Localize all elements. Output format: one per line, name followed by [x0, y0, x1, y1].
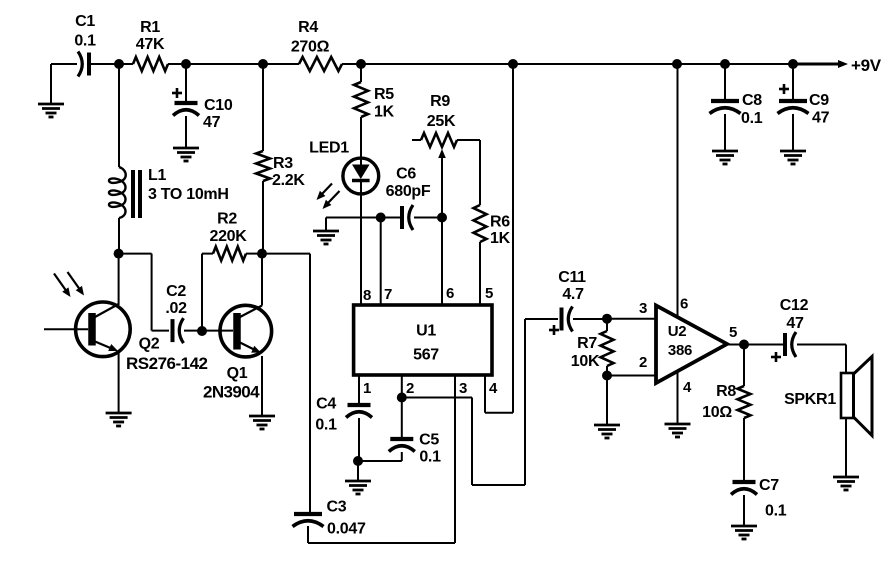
wire	[724, 114, 726, 151]
ground	[594, 425, 620, 438]
resistor R1	[133, 57, 168, 71]
capacitor C4	[346, 405, 372, 418]
wire	[50, 64, 52, 103]
wire	[677, 64, 679, 317]
wire	[326, 218, 401, 232]
wire	[743, 418, 745, 481]
svg-text:C12: C12	[780, 297, 809, 314]
ground	[173, 148, 199, 161]
capacitor C5	[389, 439, 415, 452]
svg-text:8: 8	[363, 287, 371, 304]
svg-text:R9: R9	[430, 93, 450, 110]
LED LED1	[343, 158, 379, 194]
capacitor C11	[549, 307, 573, 336]
wire	[743, 495, 745, 526]
svg-text:0.1: 0.1	[419, 449, 441, 466]
speaker SPKR1	[841, 357, 872, 436]
svg-text:1: 1	[363, 380, 371, 397]
wire	[357, 461, 359, 481]
svg-text:2.2K: 2.2K	[272, 172, 305, 189]
label C5 0.1	[419, 432, 441, 466]
svg-text:7: 7	[384, 286, 392, 303]
svg-text:R6: R6	[490, 214, 510, 231]
wire	[401, 398, 403, 439]
svg-text:C5: C5	[419, 432, 439, 449]
wire	[792, 114, 794, 151]
wire	[118, 64, 120, 167]
svg-text:0.1: 0.1	[765, 503, 787, 520]
label C10 47	[203, 97, 233, 131]
svg-text:25K: 25K	[427, 113, 456, 130]
svg-text:680pF: 680pF	[386, 183, 431, 200]
label C12 47	[780, 297, 809, 332]
ground	[345, 481, 371, 494]
pin 8	[363, 287, 371, 304]
capacitor C2	[173, 318, 184, 343]
label C9 47	[809, 92, 830, 127]
wire	[797, 345, 846, 374]
label R6 1K	[490, 214, 511, 248]
wire	[262, 254, 310, 514]
svg-text:5: 5	[729, 324, 737, 341]
pin 7	[384, 286, 392, 303]
svg-text:R8: R8	[716, 383, 736, 400]
svg-text:L1: L1	[148, 167, 166, 184]
svg-text:6: 6	[680, 296, 688, 313]
capacitor C1	[78, 52, 89, 77]
svg-text:R1: R1	[140, 19, 160, 36]
node C4-C5-gnd	[353, 456, 363, 466]
wire	[262, 64, 264, 151]
label R9 25K	[427, 93, 456, 130]
label C8 0.1	[741, 92, 763, 127]
pin 6 U2	[680, 296, 688, 313]
node rail-R3	[258, 59, 268, 69]
label Q2	[139, 336, 160, 353]
label R5 1K	[374, 86, 395, 121]
pin 6	[446, 285, 454, 302]
svg-text:+9V: +9V	[851, 56, 882, 75]
ground	[249, 416, 275, 429]
svg-text:4: 4	[489, 380, 498, 397]
wire	[307, 526, 309, 543]
svg-text:2: 2	[639, 354, 647, 371]
ground	[665, 424, 691, 437]
ground	[833, 477, 859, 490]
label C3 0.047	[327, 499, 366, 538]
node rail-C8	[720, 59, 730, 69]
wire	[185, 116, 187, 148]
svg-text:567: 567	[413, 347, 439, 364]
resistor R2	[213, 247, 246, 261]
svg-text:C10: C10	[204, 97, 233, 114]
wire	[607, 318, 656, 320]
wire	[358, 418, 360, 461]
node rail-C9	[788, 59, 798, 69]
label LED1	[309, 140, 349, 157]
node C6-pin6-wiper	[437, 213, 447, 223]
wire	[360, 117, 362, 165]
svg-text:R5: R5	[374, 86, 394, 103]
svg-text:3 TO 10mH: 3 TO 10mH	[148, 186, 229, 203]
wire	[724, 64, 726, 99]
svg-text:220K: 220K	[209, 228, 247, 245]
light arrows from LED1	[317, 184, 340, 210]
transistor Q1	[220, 305, 272, 357]
svg-text:C3: C3	[327, 499, 347, 516]
svg-text:1K: 1K	[490, 230, 511, 247]
svg-text:.02: .02	[165, 300, 187, 317]
pin 1	[363, 380, 371, 397]
wire	[677, 371, 679, 424]
svg-text:R3: R3	[273, 155, 293, 172]
capacitor C8	[710, 101, 741, 114]
wire	[441, 218, 443, 306]
capacitor C7	[731, 482, 757, 495]
wire	[414, 217, 442, 219]
svg-text:386: 386	[668, 342, 692, 359]
node C11-R7-pin3	[602, 314, 612, 324]
wire	[91, 63, 133, 65]
svg-text:47: 47	[786, 315, 804, 332]
ground	[38, 104, 64, 117]
svg-text:C8: C8	[742, 92, 762, 109]
svg-text:0.1: 0.1	[315, 417, 337, 434]
label R8 10ohm	[702, 383, 736, 421]
inductor L1	[109, 167, 140, 218]
capacitor C10	[172, 88, 199, 116]
svg-text:C9: C9	[809, 92, 829, 109]
transistor Q2	[44, 302, 130, 357]
wire	[358, 452, 402, 461]
wire	[261, 254, 263, 416]
svg-text:0.1: 0.1	[74, 33, 96, 50]
svg-text:2: 2	[406, 380, 414, 397]
resistor R5	[354, 64, 368, 117]
op-amp U1 567 tone decoder	[354, 305, 492, 375]
wire	[401, 375, 403, 398]
label C1 0.1	[74, 13, 96, 50]
svg-text:4: 4	[683, 379, 692, 396]
wire	[573, 318, 607, 320]
wire	[792, 64, 794, 99]
svg-text:47K: 47K	[136, 36, 165, 53]
capacitor C9	[778, 84, 809, 114]
svg-text:R2: R2	[217, 211, 237, 228]
svg-text:0.1: 0.1	[741, 110, 763, 127]
label R2 220K	[209, 211, 247, 246]
label R3 2.2K	[272, 155, 305, 189]
wire	[118, 254, 120, 413]
wire	[202, 254, 213, 331]
pin 3	[459, 380, 467, 397]
+9V power arrow	[793, 60, 848, 68]
label R4 270ohm	[291, 19, 330, 56]
wire	[380, 218, 382, 306]
wire	[119, 254, 169, 331]
node R7-pin2	[602, 371, 612, 381]
op-amp U2 386	[656, 306, 727, 384]
resistor R3	[256, 151, 270, 181]
svg-text:R7: R7	[577, 335, 597, 352]
svg-text:U1: U1	[416, 323, 436, 340]
R9 wiper arrow	[438, 149, 446, 218]
node rail-pin4	[508, 59, 518, 69]
svg-text:10K: 10K	[571, 353, 600, 370]
svg-text:SPKR1: SPKR1	[784, 391, 836, 408]
svg-text:3: 3	[459, 380, 467, 397]
resistor R6	[474, 205, 487, 242]
ground	[313, 231, 339, 244]
pin 2	[406, 380, 414, 397]
svg-text:RS276-142: RS276-142	[126, 354, 208, 373]
pin 4	[489, 380, 498, 397]
svg-text:C7: C7	[759, 477, 779, 494]
label RS276-142	[126, 354, 208, 373]
resistor R7	[601, 319, 614, 376]
node rail-C1R1	[114, 59, 124, 69]
wire	[360, 181, 362, 305]
wire pin2 to C11	[402, 319, 558, 485]
wire	[262, 181, 264, 254]
svg-text:2N3904: 2N3904	[203, 383, 260, 402]
wire	[727, 344, 744, 346]
label L1 3 TO 10mH	[148, 167, 229, 203]
wire	[118, 218, 120, 254]
ground	[712, 151, 738, 164]
svg-text:3: 3	[639, 300, 647, 317]
svg-text:C2: C2	[166, 283, 186, 300]
wire	[184, 330, 233, 332]
label 2N3904	[203, 383, 260, 402]
svg-text:LED1: LED1	[309, 140, 349, 157]
svg-text:5: 5	[485, 285, 493, 302]
capacitor C6	[402, 205, 413, 230]
ground	[731, 526, 757, 539]
label C4 0.1	[315, 396, 337, 434]
svg-text:C1: C1	[75, 13, 95, 30]
svg-text:10Ω: 10Ω	[702, 404, 732, 421]
svg-text:1K: 1K	[374, 104, 395, 121]
svg-text:270Ω: 270Ω	[291, 39, 330, 56]
svg-text:U2: U2	[668, 323, 687, 340]
svg-text:0.047: 0.047	[327, 521, 366, 538]
pin 3 U2	[639, 300, 647, 317]
node U2out	[739, 340, 749, 350]
svg-text:R4: R4	[298, 19, 318, 36]
label R7 10K	[571, 335, 600, 370]
label C7 0.1	[759, 477, 787, 520]
label +9V	[851, 56, 882, 75]
resistor R8	[738, 345, 751, 419]
light arrows into Q2	[54, 272, 84, 297]
node rail-C10	[181, 59, 191, 69]
wire	[51, 63, 77, 65]
pin 5 U2	[729, 324, 737, 341]
svg-text:4.7: 4.7	[562, 286, 584, 303]
svg-text:Q1: Q1	[227, 365, 248, 382]
capacitor C12	[771, 332, 796, 362]
wire	[358, 375, 360, 403]
wire	[246, 253, 262, 255]
svg-text:C4: C4	[316, 396, 336, 413]
svg-text:C6: C6	[396, 166, 416, 183]
label SPKR1	[784, 391, 836, 408]
node rail-R5	[356, 59, 366, 69]
wire	[606, 376, 608, 426]
resistor R9 25K pot	[412, 133, 480, 147]
pin 5	[485, 285, 493, 302]
label C6 680pF	[386, 166, 431, 201]
wire	[308, 375, 455, 543]
wire	[342, 63, 793, 65]
pin 2 U2	[639, 354, 647, 371]
node C2-Q1base-R2	[197, 326, 207, 336]
wire	[168, 63, 299, 65]
wire	[185, 64, 187, 101]
wire	[607, 375, 656, 377]
svg-text:Q2: Q2	[139, 336, 160, 353]
wire	[845, 418, 847, 477]
node pin2	[397, 393, 407, 403]
node L1-Q2	[114, 249, 124, 259]
ground	[780, 151, 806, 164]
label C11 4.7	[558, 269, 586, 303]
label R1 47K	[136, 19, 165, 53]
svg-text:C11: C11	[558, 269, 586, 286]
resistor R4	[299, 57, 342, 71]
svg-text:47: 47	[203, 114, 221, 131]
wire	[479, 242, 481, 305]
node pin7-gnd	[376, 213, 386, 223]
node R2-R3-C3	[257, 249, 267, 259]
node rail-U2pin6	[672, 59, 682, 69]
ground	[106, 413, 132, 426]
svg-text:6: 6	[446, 285, 454, 302]
svg-text:47: 47	[812, 110, 830, 127]
wire	[744, 344, 783, 346]
capacitor C3	[293, 514, 324, 527]
wire	[479, 140, 481, 205]
wire	[485, 64, 513, 413]
label Q1	[227, 365, 248, 382]
label C2 .02	[165, 283, 187, 317]
pin 4 U2	[683, 379, 692, 396]
